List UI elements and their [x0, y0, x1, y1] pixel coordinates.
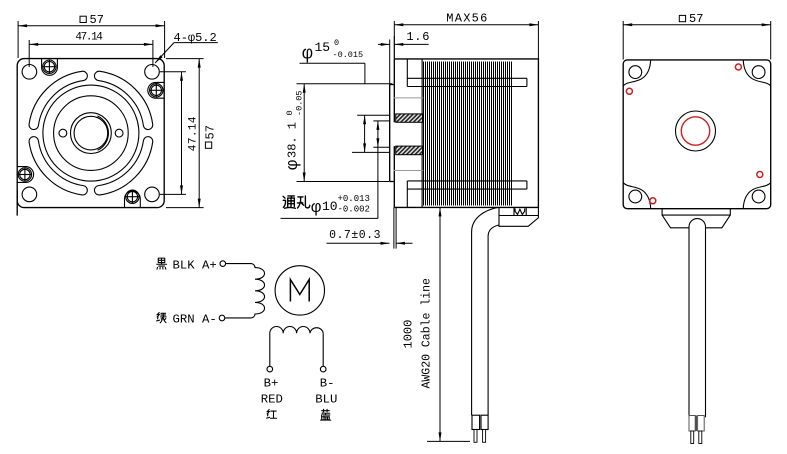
screw head top U1 [43, 60, 56, 73]
shaft hole outer ring [71, 113, 112, 154]
arc slot quadrant bottom-left [34, 141, 83, 190]
red bolt mark bottom-left [650, 198, 656, 204]
MAX56 extension right [537, 21, 539, 59]
cable rear view [689, 219, 706, 418]
arrow left [29, 43, 38, 46]
motor circle M [275, 266, 324, 315]
wire sleeve left [472, 415, 480, 429]
char HONG red [267, 410, 277, 419]
right side 47.14 extension bottom [160, 193, 186, 195]
char LV green [157, 313, 167, 323]
rear square symbol [679, 15, 685, 21]
terminal B- [320, 366, 326, 372]
left face upper segment [393, 59, 395, 122]
left face lower segment [393, 146, 395, 207]
pilot boss front face [389, 85, 391, 182]
square symbol right [205, 142, 211, 148]
arrow left [18, 24, 27, 27]
square symbol for 57 top [80, 16, 86, 22]
phi15 extension bottom [352, 151, 389, 153]
pilot boss top edge [390, 84, 395, 86]
rear square57 extension left [622, 21, 624, 60]
tie rod slot top end [526, 78, 528, 86]
hollow shaft wall top hatched [396, 114, 423, 122]
dimension line square 57 top [18, 25, 165, 27]
leader arrowhead [155, 55, 162, 63]
phi38.1 dimension line [303, 84, 305, 182]
arrow right [144, 43, 153, 46]
phi15 extension top [357, 114, 389, 116]
ear bottom-right [743, 183, 771, 209]
mounting hole bottom-left [22, 187, 37, 202]
MAX56 dimension line [394, 24, 538, 26]
wire exit block side [499, 207, 538, 226]
svg-text:BLU: BLU [315, 392, 337, 406]
red bolt mark top-right [735, 64, 741, 70]
svg-text:0.7±0.3: 0.7±0.3 [329, 229, 380, 242]
leader 4-phi5.2 [174, 42, 218, 44]
phi38.1 extension bottom [297, 181, 390, 183]
phi10 extension bottom [373, 146, 390, 148]
svg-text:-0.05: -0.05 [294, 90, 304, 116]
strain relief mark [514, 208, 526, 216]
motor body rear square [623, 60, 771, 209]
rotor line top gray [394, 97, 424, 99]
small hole right [115, 129, 123, 137]
wire B- drop [322, 333, 324, 366]
terminal A+ [220, 261, 226, 267]
small hole left [59, 129, 67, 137]
red bolt mark right-bottom [757, 172, 763, 178]
rear wire sleeve left [689, 416, 695, 432]
svg-text:10: 10 [322, 199, 338, 214]
svg-text:φ: φ [302, 45, 313, 65]
svg-text:47.14: 47.14 [187, 116, 199, 151]
arc slot quadrant top-left [34, 76, 83, 125]
right square57 extension bottom [166, 207, 204, 209]
svg-text:GRN A-: GRN A- [173, 313, 217, 327]
arrow right [156, 24, 165, 27]
rear center red circle [681, 117, 709, 145]
svg-text:15: 15 [315, 40, 331, 55]
left edge overhang line [16, 190, 18, 216]
ear bottom-left [623, 183, 651, 209]
char KONG hole [297, 196, 309, 208]
tie rod slot bottom line2 [407, 188, 527, 190]
extension line right for 47.14 [152, 40, 154, 67]
wire A+ and coil phase A [225, 264, 265, 318]
inner face circle [54, 96, 129, 171]
ear top-right [743, 60, 771, 86]
terminal B+ [267, 366, 273, 372]
char TONG through [283, 196, 295, 208]
mounting hole bottom-right [145, 187, 160, 202]
extension line left for 47.14 [28, 40, 30, 67]
tie rod slot top line2 [407, 86, 527, 88]
cable end baseline [427, 440, 470, 442]
bare wire right [483, 430, 486, 443]
hollow shaft wall bottom hatched [396, 146, 423, 155]
letter M [290, 280, 309, 302]
svg-text:57: 57 [90, 13, 104, 27]
svg-text:φ: φ [311, 199, 321, 218]
red bolt mark left-top [626, 88, 632, 94]
svg-text:B+: B+ [264, 377, 279, 391]
screw head bottom [126, 190, 139, 203]
tie rod slot top line1 [407, 77, 527, 79]
rotor line bottom gray [394, 170, 424, 172]
extension line right for square 57 [164, 21, 166, 58]
0.7 dim left piece [327, 242, 390, 244]
svg-text:MAX56: MAX56 [446, 12, 487, 26]
rear hole top-left [629, 66, 642, 79]
MAX56 extension left [393, 21, 395, 59]
1.6 extension lines above body [389, 40, 391, 85]
right square57 extension top [166, 58, 204, 60]
rear wire sleeve right [698, 416, 705, 432]
svg-text:57: 57 [203, 125, 217, 139]
screw head right [150, 84, 163, 97]
0.7 dim right piece [396, 242, 413, 244]
right vertical dimension line 47.14 [181, 72, 183, 195]
rear hole bottom-right [752, 190, 765, 203]
svg-text:-0.015: -0.015 [333, 50, 364, 60]
bare wire left [474, 430, 477, 443]
tie rod slot bottom end [526, 181, 528, 189]
1.6 dim right piece [394, 43, 428, 45]
cable curve side view [472, 207, 498, 415]
phi10 extension top [373, 120, 389, 122]
shaft chamfer crescent arc [98, 116, 109, 150]
motor body outline side view [394, 59, 538, 208]
phi10 dimension line with leader to text [377, 121, 379, 218]
tongkong phi10 leader underline [281, 217, 378, 219]
svg-text:AWG20 Cable line: AWG20 Cable line [421, 278, 434, 389]
rear bare wire left [691, 431, 694, 444]
screw notch left [17, 167, 33, 183]
screw head left [18, 168, 31, 181]
1.6 dim left piece [378, 43, 390, 45]
mounting hole top-left [22, 65, 37, 80]
svg-text:1.6: 1.6 [406, 30, 429, 44]
svg-text:φ: φ [284, 160, 303, 170]
phi15 dimension line [364, 115, 366, 152]
rear hole bottom-left [629, 190, 642, 203]
svg-text:+0.013: +0.013 [338, 194, 370, 204]
char HEI black [157, 258, 167, 269]
front boss circle [43, 85, 139, 181]
coil phase B [270, 327, 323, 334]
end cap step vertical top [406, 59, 408, 87]
svg-text:38. 1: 38. 1 [286, 122, 300, 158]
rear connector block [662, 209, 730, 228]
front cap inner boundary [421, 59, 423, 208]
svg-text:0: 0 [334, 38, 339, 48]
screw notch bottom [125, 191, 141, 208]
svg-text:1000: 1000 [402, 320, 416, 349]
screw notch top [42, 59, 58, 76]
arc slot quadrant bottom-right [99, 141, 148, 190]
svg-text:BLK A+: BLK A+ [173, 258, 217, 272]
wire sleeve right [481, 415, 488, 429]
tie rod slot bottom line1 [407, 180, 527, 182]
rear center boss circle [676, 111, 716, 151]
svg-text:-0.002: -0.002 [338, 205, 370, 215]
1000 cable dimension line [439, 207, 441, 441]
motor body front face square [17, 59, 164, 208]
svg-text:4-φ5.2: 4-φ5.2 [174, 31, 217, 45]
rear square57 extension right [770, 21, 772, 60]
dimension line 47.14 [29, 43, 153, 45]
rear square57 dimension line [623, 24, 771, 26]
svg-text:57: 57 [689, 12, 703, 26]
block inner line [499, 215, 538, 217]
svg-text:0: 0 [285, 110, 295, 115]
rear hole top-right [752, 66, 765, 79]
arc slot quadrant top-right [99, 76, 148, 125]
pilot boss bottom edge [390, 181, 395, 183]
extension line left for square 57 [17, 21, 19, 58]
svg-text:B-: B- [320, 377, 335, 391]
laminations stack [424, 62, 512, 206]
0.7 extension lines below body [393, 207, 395, 248]
end cap step vertical bottom [406, 181, 408, 208]
char LAN blue [321, 409, 331, 420]
sleeve divider [695, 416, 697, 432]
rear bare wire right [699, 431, 702, 444]
svg-text:47.14: 47.14 [75, 31, 103, 43]
mounting hole top-right [145, 65, 160, 80]
terminal A- [219, 315, 225, 321]
screw notch right [148, 82, 164, 98]
wire B+ drop [269, 333, 271, 366]
right side 47.14 extension top [160, 71, 186, 73]
shaft hole inner circle [74, 116, 108, 150]
phi15 leader line [300, 62, 365, 64]
svg-text:RED: RED [261, 392, 283, 406]
ear top-left [623, 60, 651, 86]
right vertical dimension line square 57 [198, 59, 200, 208]
phi38.1 extension top [297, 83, 393, 85]
